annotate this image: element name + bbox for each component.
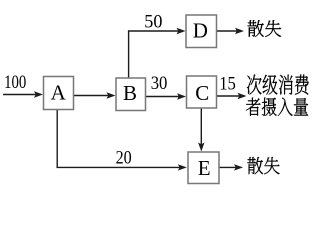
wire: A down and over to E [57,110,180,168]
wire: input arrow into box A [3,91,43,97]
svg-text:15: 15 [219,73,236,94]
box A [44,77,74,110]
label: dissipation (bottom right) [247,157,279,174]
svg-text:50: 50 [144,11,162,31]
label: secondary consumer intake line 2 [246,98,308,116]
box C [187,76,217,108]
wire: E output arrow (to dissipation) [220,164,244,170]
svg-text:C: C [195,81,209,105]
wire: A to B [74,92,116,98]
wire: B to C [146,93,187,99]
svg-text:20: 20 [116,147,132,167]
label: secondary consumer intake line 1 [247,75,309,95]
wire: B up and over to D [129,31,179,78]
svg-text:B: B [123,81,137,105]
box B [116,78,146,111]
svg-text:30: 30 [151,72,168,93]
box D [186,15,217,48]
label: dissipation (top right) [248,20,282,37]
svg-text:A: A [51,80,67,104]
wire: C down into E [198,108,204,152]
svg-text:E: E [198,156,211,180]
svg-text:D: D [193,18,208,42]
box E [188,152,219,184]
wire: D output arrow (to dissipation) [217,28,245,34]
svg-text:100: 100 [4,71,26,92]
wire: C output arrow (to intake label) [217,93,247,99]
